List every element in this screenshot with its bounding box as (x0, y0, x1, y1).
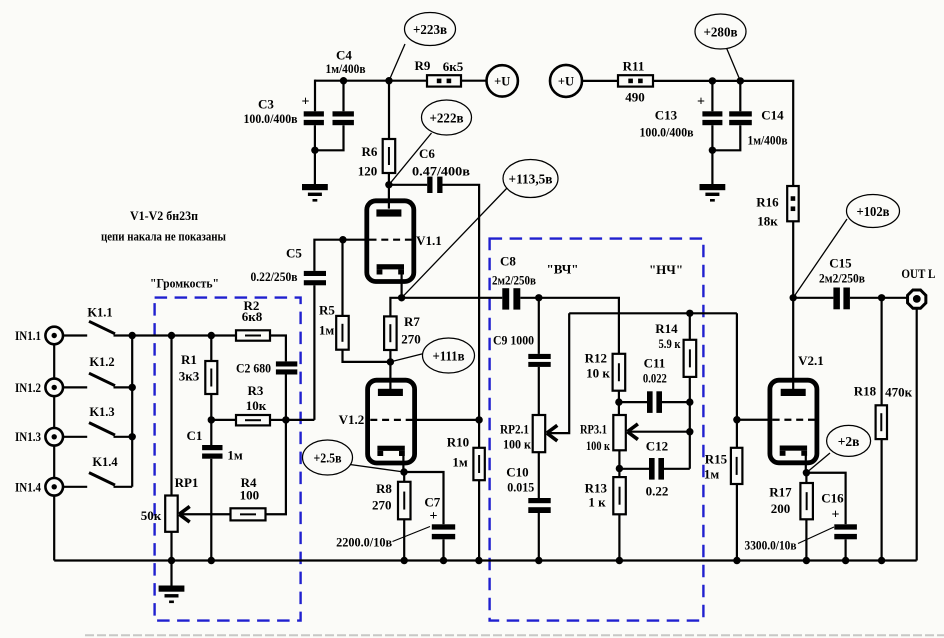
callout +2.5в (303, 440, 353, 475)
svg-text:R7: R7 (404, 314, 420, 329)
leader +113,5в (402, 187, 508, 298)
wire R2 right jog to C2 (270, 336, 286, 362)
value C16 3300.0/10в (745, 537, 797, 552)
node V1.1 grid junction (339, 236, 346, 243)
svg-text:K1.4: K1.4 (92, 455, 118, 469)
resistor R8 top lead (403, 472, 405, 482)
svg-text:2м2/250в: 2м2/250в (819, 271, 865, 286)
label K1.2 (89, 355, 114, 369)
RP3.1 wiper arrow (627, 424, 638, 440)
svg-text:R14: R14 (655, 321, 678, 336)
svg-text:120: 120 (358, 163, 378, 178)
label R3 (248, 383, 264, 398)
label C10 (506, 465, 528, 480)
svg-text:IN1.2: IN1.2 (15, 381, 41, 395)
wire R3 right lead (270, 419, 286, 421)
label C6 (419, 146, 435, 161)
svg-text:R12: R12 (585, 350, 607, 365)
wire C13 bottom to ground node (711, 125, 713, 150)
wire cathode jog to R7 top (390, 298, 401, 317)
svg-text:K1.2: K1.2 (89, 355, 114, 369)
label R14 (655, 321, 678, 336)
label C3 (258, 97, 274, 112)
node C15/R18/OUT junction (878, 294, 885, 301)
wire K1.1 output (114, 334, 133, 336)
node C16 bottom on bus (842, 557, 849, 564)
label IN1.3 (15, 430, 41, 444)
node RP1 bottom on bus (168, 557, 175, 564)
resistor R14 (684, 340, 697, 377)
node K1.1 output (129, 332, 136, 339)
svg-text:1м/400в: 1м/400в (748, 133, 788, 148)
svg-text:K1.3: K1.3 (89, 405, 114, 419)
leader +111в (390, 353, 424, 362)
svg-text:C10: C10 (506, 465, 528, 480)
wire V1.2 anode lead (389, 362, 391, 390)
node C1 bottom on bus (208, 557, 215, 564)
capacitor C14 (729, 111, 752, 125)
input jack IN1.3 (45, 428, 63, 446)
V1.1 grid (dashed) (370, 239, 413, 241)
label "ВЧ" (547, 262, 579, 277)
svg-text:C9 1000: C9 1000 (493, 333, 534, 348)
capacitor C15 (833, 288, 850, 310)
callout +222в (422, 100, 472, 135)
node K1.2 output (129, 384, 136, 391)
node C13 top (709, 77, 716, 84)
label RP1 (175, 475, 199, 490)
label V2.1 (798, 353, 824, 368)
label R11 (623, 59, 645, 74)
wire C2 bottom lead (285, 375, 287, 420)
svg-text:C2 680: C2 680 (236, 361, 271, 376)
wire RP1 ground stem (170, 561, 172, 586)
svg-text:RP2.1: RP2.1 (500, 422, 529, 437)
svg-text:C14: C14 (761, 108, 784, 123)
node RP3.1 wiper junction (686, 428, 693, 435)
wire cathode to C16 top (806, 473, 845, 525)
node R18 bottom on bus (878, 557, 885, 564)
value R10 1м (452, 454, 468, 469)
label R17 (769, 484, 792, 499)
value C6 0.47/400в (412, 163, 470, 178)
node R14 top on rail (686, 310, 693, 317)
svg-text:0.22: 0.22 (646, 484, 669, 499)
resistor R7 (384, 316, 397, 350)
label K1.4 (92, 455, 118, 469)
wire C9 bottom to RP2.1 (538, 367, 540, 415)
wire C11 right lead (662, 401, 690, 403)
wire +U to R11 (582, 80, 618, 82)
value R14 5.9 к (659, 336, 681, 351)
label R6 (362, 144, 378, 159)
input jack IN1.2 (45, 379, 63, 397)
value R12 10 к (586, 365, 610, 380)
svg-text:R6: R6 (362, 144, 378, 159)
node C7 bottom on bus (440, 557, 447, 564)
svg-text:+223в: +223в (413, 22, 447, 37)
label C8 (500, 254, 516, 269)
switch K1.2 arm (89, 373, 115, 386)
wire V1.2 cathode lead (402, 453, 404, 472)
wire R7 bottom (389, 350, 391, 362)
wire cathode to C8 (402, 297, 503, 299)
wire IN1.2 jack to switch (63, 386, 87, 388)
wire C13 top lead (711, 81, 713, 111)
node R15 bottom on bus (733, 557, 740, 564)
value C10 0.015 (507, 479, 534, 494)
polarity + of C16 (832, 508, 840, 523)
V2.1 grid (dashed) (773, 419, 816, 421)
svg-text:C5: C5 (286, 246, 302, 261)
callout +113,5в (503, 160, 558, 198)
svg-text:100 к: 100 к (586, 438, 610, 453)
svg-text:R5: R5 (319, 303, 335, 318)
wire C6 left lead (389, 184, 427, 186)
svg-text:+: + (302, 94, 310, 109)
wire R5 bottom jog (343, 350, 391, 362)
svg-text:K1.1: K1.1 (87, 305, 112, 319)
svg-text:100.0/400в: 100.0/400в (244, 111, 298, 126)
svg-text:6к5: 6к5 (443, 59, 464, 74)
capacitor C2 (276, 361, 297, 374)
node V1.2 grid / R10 junction (475, 416, 482, 423)
label RP2.1 (500, 422, 529, 437)
wire C14 bottom jog (712, 125, 740, 150)
value C13 100.0/400в (640, 125, 694, 140)
resistor R15 (731, 448, 743, 484)
value C7 2200.0/10в (336, 534, 392, 549)
wire R6 top lead (388, 81, 390, 139)
label C5 (286, 246, 302, 261)
value R16 18к (757, 214, 778, 229)
label R18 (854, 384, 877, 399)
capacitor C6 (427, 177, 442, 193)
power terminal +U (left) (487, 65, 518, 96)
triode V1.2 (368, 380, 415, 463)
wire R15 bottom lead (736, 484, 738, 561)
label C4 (336, 48, 352, 63)
wire junction to C5 riser (286, 419, 315, 421)
svg-text:+2.5в: +2.5в (314, 451, 342, 466)
wire selector bus (131, 336, 133, 487)
note V1-V2 бн23п (130, 208, 198, 223)
svg-text:+113,5в: +113,5в (509, 172, 553, 187)
switch K1.4 arm (89, 473, 115, 486)
node V1.2 cathode junction (+2.5в) (400, 468, 407, 475)
svg-text:R18: R18 (854, 384, 877, 399)
wire C8 out to R12 drop (539, 298, 619, 354)
note цепи накала не показаны (101, 229, 226, 244)
svg-text:+111в: +111в (433, 349, 465, 364)
wire input shield bus (53, 336, 55, 561)
svg-text:270: 270 (401, 332, 421, 347)
svg-text:C16: C16 (821, 491, 844, 506)
wire R16 bottom to V2.1 anode (792, 221, 794, 390)
svg-text:2200.0/10в: 2200.0/10в (336, 534, 392, 549)
tone control dashed box "ВЧ/НЧ" (490, 239, 704, 621)
svg-text:V1.1: V1.1 (416, 233, 442, 248)
wire K1.4 output (114, 486, 133, 488)
wire R1 bottom lead (210, 394, 212, 445)
svg-text:+U: +U (558, 75, 574, 89)
label C7 (424, 494, 440, 509)
value C1 1м (227, 448, 243, 463)
leader +102в (793, 219, 847, 298)
capacitor C12 (649, 458, 664, 480)
volume control dashed box "Громкость" (155, 298, 301, 621)
svg-text:R15: R15 (705, 452, 728, 467)
resistor R3 (236, 415, 270, 425)
svg-text:C3: C3 (258, 97, 274, 112)
node R1 top (208, 332, 215, 339)
label C16 (821, 491, 844, 506)
potentiometer RP1 (165, 496, 178, 532)
leader +223в (389, 44, 405, 81)
label C11 (644, 356, 666, 371)
wire C5 bottom to volume network (313, 285, 315, 420)
svg-text:490: 490 (625, 90, 645, 105)
svg-text:C12: C12 (646, 439, 668, 454)
value C5 0.22/250в (251, 269, 298, 284)
label R16 (756, 195, 779, 210)
value R8 270 (372, 497, 392, 512)
wire OUT jack to bus (916, 309, 918, 561)
svg-text:+222в: +222в (430, 111, 464, 126)
input jack IN1.4 (45, 478, 63, 496)
svg-text:470к: 470к (885, 385, 913, 400)
value R13 1 к (588, 494, 606, 509)
svg-text:1м: 1м (227, 448, 243, 463)
triode V2.1 (770, 380, 817, 463)
node K1.3 output (129, 433, 136, 440)
label C2 680 (236, 361, 271, 376)
polarity + of C7 (430, 509, 438, 524)
svg-text:1 к: 1 к (588, 494, 606, 509)
resistor R18 (876, 405, 887, 439)
wire K1.3 output (114, 436, 133, 438)
label K1.3 (89, 405, 114, 419)
wire C12 right lead (664, 468, 690, 470)
label V1.2 (339, 412, 365, 427)
node V1.1 cathode junction (+113,5в) (398, 294, 405, 301)
wire C4 bottom jog (315, 125, 344, 150)
node R7/R5/V1.2 anode junction (+111в) (387, 358, 394, 365)
label R9 (415, 58, 431, 73)
node V1.1 anode junction (385, 181, 392, 188)
switch K1.3 arm (89, 423, 115, 436)
svg-text:100 к: 100 к (503, 437, 531, 452)
wire C15 to OUT (850, 297, 907, 299)
value R2 6к8 (242, 309, 263, 324)
triode V1.1 (367, 201, 414, 282)
potentiometer RP2.1 (533, 415, 546, 452)
label "Громкость" (150, 276, 219, 291)
wire K1.2 output (114, 386, 133, 388)
label C1 (187, 428, 203, 443)
resistor R2 (236, 330, 270, 340)
resistor R6 (383, 139, 396, 173)
svg-text:+: + (430, 509, 438, 524)
svg-text:R1: R1 (181, 352, 197, 367)
svg-text:V2.1: V2.1 (798, 353, 824, 368)
node RP1 top (168, 332, 175, 339)
node C4 top (340, 77, 347, 84)
value C3 100.0/400в (244, 111, 298, 126)
wire C4 drop (342, 81, 344, 112)
capacitor C3 (304, 111, 324, 125)
wire top B+ rail left (315, 80, 427, 82)
label C14 (761, 108, 784, 123)
resistor R4 (231, 508, 266, 520)
resistor R17 top lead (805, 473, 807, 483)
svg-text:1м/400в: 1м/400в (326, 61, 366, 76)
wire ground stem (314, 150, 316, 184)
wire C9 top lead (538, 298, 540, 354)
wire V1.2 grid right lead (413, 419, 479, 421)
svg-text:+2в: +2в (838, 434, 860, 449)
wire R8 bottom lead (403, 519, 405, 560)
label "НЧ" (649, 262, 683, 277)
svg-text:+U: +U (494, 75, 510, 89)
svg-text:1м: 1м (704, 467, 720, 482)
svg-text:0.015: 0.015 (507, 479, 534, 494)
wire RP1 bottom lead (170, 532, 172, 561)
wire C12 left lead (619, 468, 649, 470)
value R9 6к5 (443, 59, 464, 74)
node R10 bottom on bus (475, 557, 482, 564)
leader 3300.0/10в to C16 (798, 527, 834, 544)
callout +280в (695, 14, 746, 49)
ground under C13/C14 (700, 184, 726, 202)
wire RP3.1 bottom (618, 450, 620, 477)
wire R10 bottom lead (478, 480, 480, 560)
wire R17 bottom lead (805, 519, 807, 560)
wire R10 top lead (478, 420, 480, 448)
wire IN1.4 jack to switch (63, 486, 87, 488)
svg-text:R8: R8 (376, 481, 392, 496)
svg-text:+: + (832, 508, 840, 523)
capacitor C8 (502, 288, 520, 309)
label R4 (241, 475, 257, 490)
callout +111в (423, 338, 475, 373)
value RP1 50к (141, 508, 162, 523)
node C2/R3/R4 junction (282, 416, 289, 423)
svg-text:+: + (697, 94, 705, 109)
wire R11 to R16 corner (653, 81, 793, 186)
wire V2.1 cathode lead (805, 453, 807, 473)
resistor R16 (787, 186, 799, 221)
label R2 (244, 298, 260, 313)
resistor R9 (427, 75, 461, 86)
leader +222в (389, 133, 432, 185)
svg-text:OUT L: OUT L (901, 266, 935, 281)
label K1.1 (87, 305, 112, 319)
wire IN1.1 jack to switch (63, 334, 87, 336)
node RP3.1/C12/R13 junction (616, 465, 623, 472)
svg-text:3к3: 3к3 (179, 369, 200, 384)
polarity + of C13 (697, 94, 705, 109)
svg-text:RP1: RP1 (175, 475, 199, 490)
svg-text:C7: C7 (424, 494, 440, 509)
wire RP3.1 wiper lead (627, 431, 689, 433)
node V2.1 cathode junction (+2в) (803, 469, 810, 476)
resistor R11 (618, 75, 653, 86)
capacitor C4 (333, 111, 354, 125)
capacitor C1 (202, 445, 222, 459)
svg-text:"ВЧ": "ВЧ" (547, 262, 579, 277)
wire C3 drop (314, 80, 316, 112)
wire C7 bottom lead (442, 539, 444, 560)
label C9 1000 (493, 333, 534, 348)
leader +280в (727, 48, 741, 81)
svg-text:R17: R17 (769, 484, 792, 499)
wire R12 bottom (618, 391, 620, 415)
resistor R5 (336, 316, 349, 350)
label R8 (376, 481, 392, 496)
wire C11 left lead (619, 401, 647, 403)
output jack OUT L (908, 290, 926, 308)
value R1 3к3 (179, 369, 200, 384)
value R3 10к (246, 398, 267, 413)
svg-text:C11: C11 (644, 356, 666, 371)
wire C14 top lead (739, 81, 741, 111)
node R6 top (+223в) (385, 77, 392, 84)
label C13 (655, 108, 678, 123)
svg-text:C15: C15 (829, 256, 852, 271)
value R4 100 (240, 487, 260, 502)
value C8 2м2/250в (492, 273, 536, 288)
wire V1.1 cathode lead (401, 272, 403, 298)
wire V1.1 grid lead (343, 239, 370, 241)
svg-text:0.47/400в: 0.47/400в (412, 163, 470, 178)
value RP2.1 100 к (503, 437, 531, 452)
node V2.1 grid / R15 junction (733, 416, 740, 423)
leader 2200.0/10в to C7 (393, 527, 431, 542)
callout +102в (847, 195, 900, 228)
RP1 wiper arrow (179, 506, 190, 522)
resistor R10 (473, 448, 484, 480)
value C15 2м2/250в (819, 271, 865, 286)
wire C1 bottom lead (210, 459, 212, 561)
label RP3.1 (580, 422, 607, 437)
wire crossover rail drop to grid (736, 313, 738, 448)
svg-text:C8: C8 (500, 254, 516, 269)
svg-text:R3: R3 (248, 383, 264, 398)
capacitor C16 (834, 524, 857, 539)
svg-text:C13: C13 (655, 108, 678, 123)
label IN1.4 (15, 480, 42, 494)
value R5 1м (319, 323, 335, 338)
node R17 bottom on bus (803, 557, 810, 564)
capacitor C10 (528, 498, 550, 513)
svg-text:3300.0/10в: 3300.0/10в (745, 537, 797, 552)
node R13 bottom on bus (616, 557, 623, 564)
wire B+ rail R9 to +U (461, 80, 487, 82)
resistor R5 top lead (341, 240, 343, 316)
leader +2.5в (350, 465, 404, 473)
value C12 0.22 (646, 484, 669, 499)
value C4 1м/400в (326, 61, 366, 76)
svg-text:R16: R16 (756, 195, 779, 210)
svg-text:"Громкость": "Громкость" (150, 276, 219, 291)
wire R3 left lead (211, 419, 236, 421)
leader +2в (806, 453, 830, 473)
resistor R12 (613, 354, 626, 391)
label OUT L (901, 266, 935, 281)
resistor R13 (613, 477, 626, 514)
wire C10 bottom lead (538, 513, 540, 561)
